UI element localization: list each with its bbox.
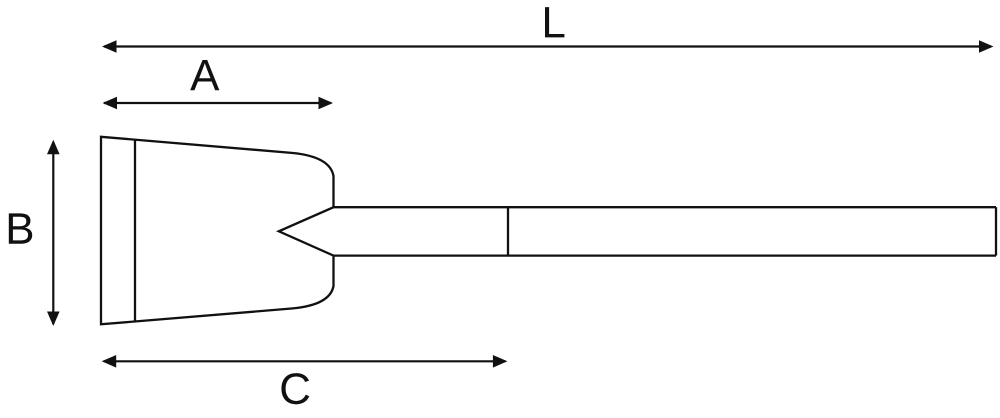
label A [190,60,219,90]
shaft right end cap [995,207,997,255]
dimension C right arrowhead [493,355,508,368]
shaft bottom edge [334,254,997,256]
dimension C left arrowhead [102,355,117,368]
dimension B bottom arrowhead [47,312,60,327]
label C [281,373,309,404]
shaft top edge [334,206,997,208]
dimension C line [104,360,506,362]
dimension L left arrowhead [102,40,117,53]
dimension A left arrowhead [103,97,118,110]
dimension L line [104,45,991,47]
label B [9,213,32,243]
dimension B top arrowhead [47,140,60,155]
shaft joint divider [507,207,509,255]
dimension L right arrowhead [979,40,994,53]
blade edge inner line [134,140,136,321]
label L [545,7,564,37]
dimension B line [52,142,54,324]
blade outline (scraper head) [101,137,334,324]
dimension A line [104,102,331,104]
dimension A right arrowhead [319,97,334,110]
